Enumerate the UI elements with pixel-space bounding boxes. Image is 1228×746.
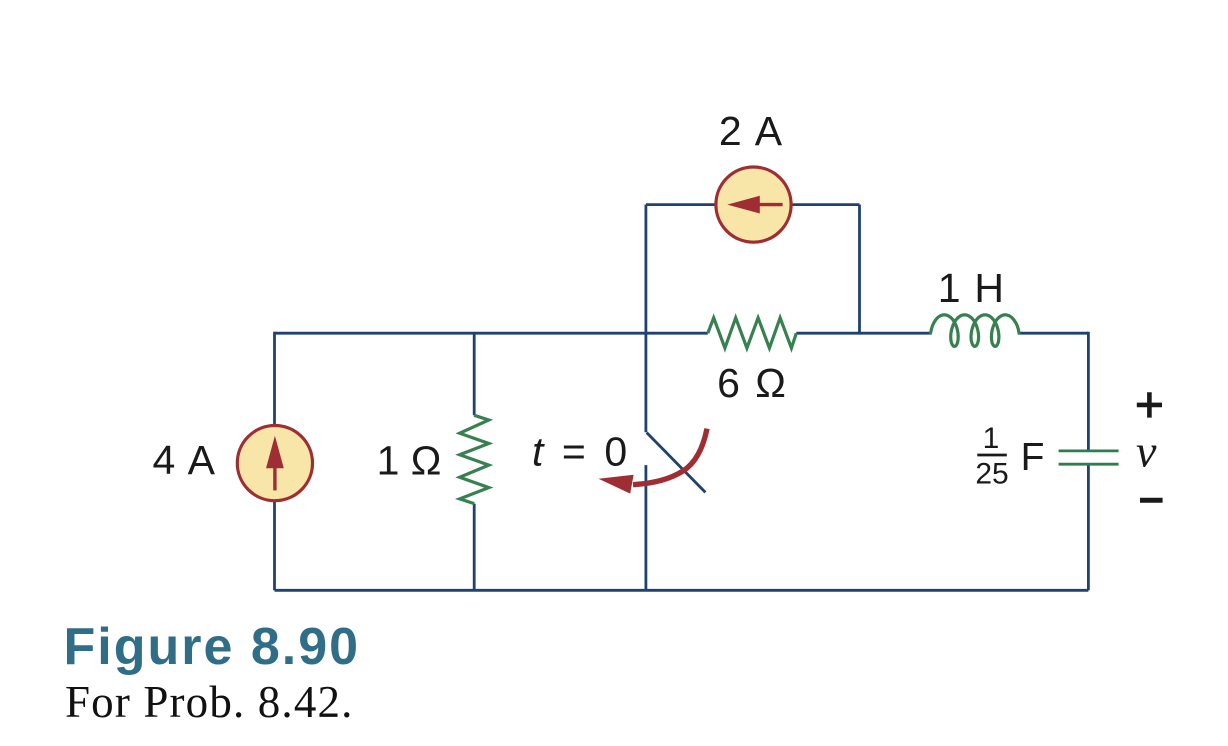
current source 2A circle [716, 167, 791, 242]
svg-text:Figure 8.90: Figure 8.90 [64, 618, 361, 676]
switch blade [647, 433, 706, 493]
svg-text:1 Ω: 1 Ω [377, 437, 442, 483]
wire 1-ohm branch bottom stub [473, 504, 476, 591]
capacitor fraction bar [977, 454, 1007, 457]
svg-text:v: v [1136, 426, 1157, 477]
svg-text:t = 0: t = 0 [532, 428, 630, 474]
current source 2A arrow [727, 196, 760, 214]
wire 2A loop top horizontal [646, 203, 860, 206]
svg-text:2 A: 2 A [719, 108, 784, 154]
wire 1-ohm branch top stub [473, 333, 476, 415]
capacitor C top plate [1059, 449, 1119, 452]
label minus sign [1140, 498, 1163, 503]
capacitor C bottom plate [1059, 463, 1119, 466]
svg-text:1: 1 [983, 422, 1000, 455]
resistor R 6-ohm zigzag [708, 318, 797, 348]
svg-text:6 Ω: 6 Ω [717, 360, 788, 406]
current source 4A arrow [266, 436, 284, 469]
switch arc arrowhead [599, 475, 634, 494]
switch action arc t=0 [633, 429, 707, 485]
wire bottom horizontal [275, 589, 1089, 592]
svg-text:25: 25 [975, 458, 1008, 491]
wire 2A loop right vertical [858, 205, 861, 334]
wire switch lower stub [645, 465, 648, 590]
svg-text:F: F [1021, 436, 1045, 479]
wire main horizontal right of inductor [1019, 332, 1088, 335]
wire switch branch vertical from 2A loop through main node [645, 205, 648, 433]
wire left vertical branch [273, 332, 276, 591]
wire top-left horizontal (main node) [275, 332, 708, 335]
current source 4A circle [237, 426, 312, 501]
svg-text:4 A: 4 A [152, 437, 216, 483]
wire right vertical below capacitor [1087, 464, 1090, 590]
inductor L 1H coil [931, 315, 1019, 347]
resistor R 1-ohm zigzag [460, 415, 489, 503]
wire main horizontal right of 6-ohm [796, 332, 930, 335]
svg-text:1 H: 1 H [938, 265, 1005, 311]
svg-text:For Prob. 8.42.: For Prob. 8.42. [65, 677, 354, 727]
wire right vertical above capacitor [1087, 332, 1090, 451]
label plus sign [1137, 392, 1162, 417]
